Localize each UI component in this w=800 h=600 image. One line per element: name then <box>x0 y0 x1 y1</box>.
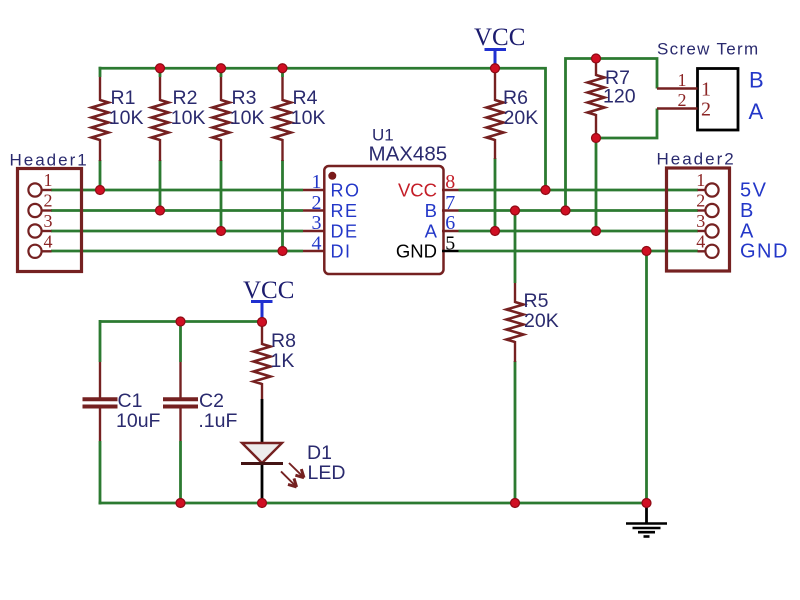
svg-text:1: 1 <box>312 171 322 193</box>
svg-text:LED: LED <box>308 462 346 484</box>
svg-text:1K: 1K <box>271 350 295 372</box>
svg-text:2: 2 <box>696 191 705 211</box>
svg-text:R8: R8 <box>271 330 296 352</box>
svg-text:B: B <box>749 68 764 93</box>
svg-text:Header1: Header1 <box>10 150 89 169</box>
svg-text:Header2: Header2 <box>657 149 736 168</box>
svg-text:R3: R3 <box>232 87 257 109</box>
svg-text:RE: RE <box>331 201 359 221</box>
svg-text:4: 4 <box>696 232 705 252</box>
svg-text:10K: 10K <box>171 107 206 129</box>
svg-text:2: 2 <box>701 99 711 121</box>
svg-text:GND: GND <box>396 241 437 262</box>
svg-text:A: A <box>425 221 438 242</box>
svg-text:20K: 20K <box>524 310 559 332</box>
svg-text:4: 4 <box>44 232 53 252</box>
svg-text:DE: DE <box>331 222 359 242</box>
svg-text:DI: DI <box>331 242 352 262</box>
svg-text:R6: R6 <box>503 87 528 109</box>
svg-text:R5: R5 <box>524 290 549 312</box>
svg-text:1: 1 <box>678 70 687 90</box>
svg-text:6: 6 <box>445 212 455 234</box>
svg-text:3: 3 <box>696 211 705 231</box>
svg-text:R1: R1 <box>111 87 136 109</box>
svg-text:2: 2 <box>312 192 322 214</box>
svg-text:R4: R4 <box>293 87 318 109</box>
svg-text:Screw Term: Screw Term <box>657 39 759 58</box>
svg-text:10K: 10K <box>230 107 265 129</box>
svg-text:B: B <box>740 200 755 222</box>
svg-text:3: 3 <box>44 211 53 231</box>
svg-text:.1uF: .1uF <box>198 410 237 432</box>
svg-text:GND: GND <box>740 241 789 263</box>
svg-text:A: A <box>740 221 755 243</box>
svg-text:20K: 20K <box>504 107 539 129</box>
svg-text:2: 2 <box>44 191 53 211</box>
svg-text:VCC: VCC <box>243 277 294 304</box>
svg-text:2: 2 <box>678 90 687 110</box>
svg-text:7: 7 <box>445 192 455 214</box>
svg-text:A: A <box>749 99 764 124</box>
svg-text:B: B <box>425 200 437 221</box>
svg-text:VCC: VCC <box>474 24 525 51</box>
svg-text:C1: C1 <box>118 390 143 412</box>
svg-text:10uF: 10uF <box>116 410 161 432</box>
svg-text:8: 8 <box>445 171 455 193</box>
svg-text:C2: C2 <box>199 390 224 412</box>
svg-text:RO: RO <box>331 181 361 201</box>
svg-text:VCC: VCC <box>398 180 437 201</box>
svg-text:10K: 10K <box>291 107 326 129</box>
svg-text:5V: 5V <box>740 180 767 202</box>
svg-text:4: 4 <box>312 232 322 254</box>
svg-text:1: 1 <box>44 170 53 190</box>
svg-text:5: 5 <box>445 232 455 254</box>
svg-text:10K: 10K <box>109 107 144 129</box>
svg-text:R2: R2 <box>173 87 198 109</box>
svg-text:120: 120 <box>603 86 636 108</box>
svg-text:1: 1 <box>696 170 705 190</box>
svg-text:3: 3 <box>312 212 322 234</box>
svg-text:MAX485: MAX485 <box>369 142 448 165</box>
svg-text:D1: D1 <box>307 442 332 464</box>
svg-text:1: 1 <box>701 79 711 101</box>
